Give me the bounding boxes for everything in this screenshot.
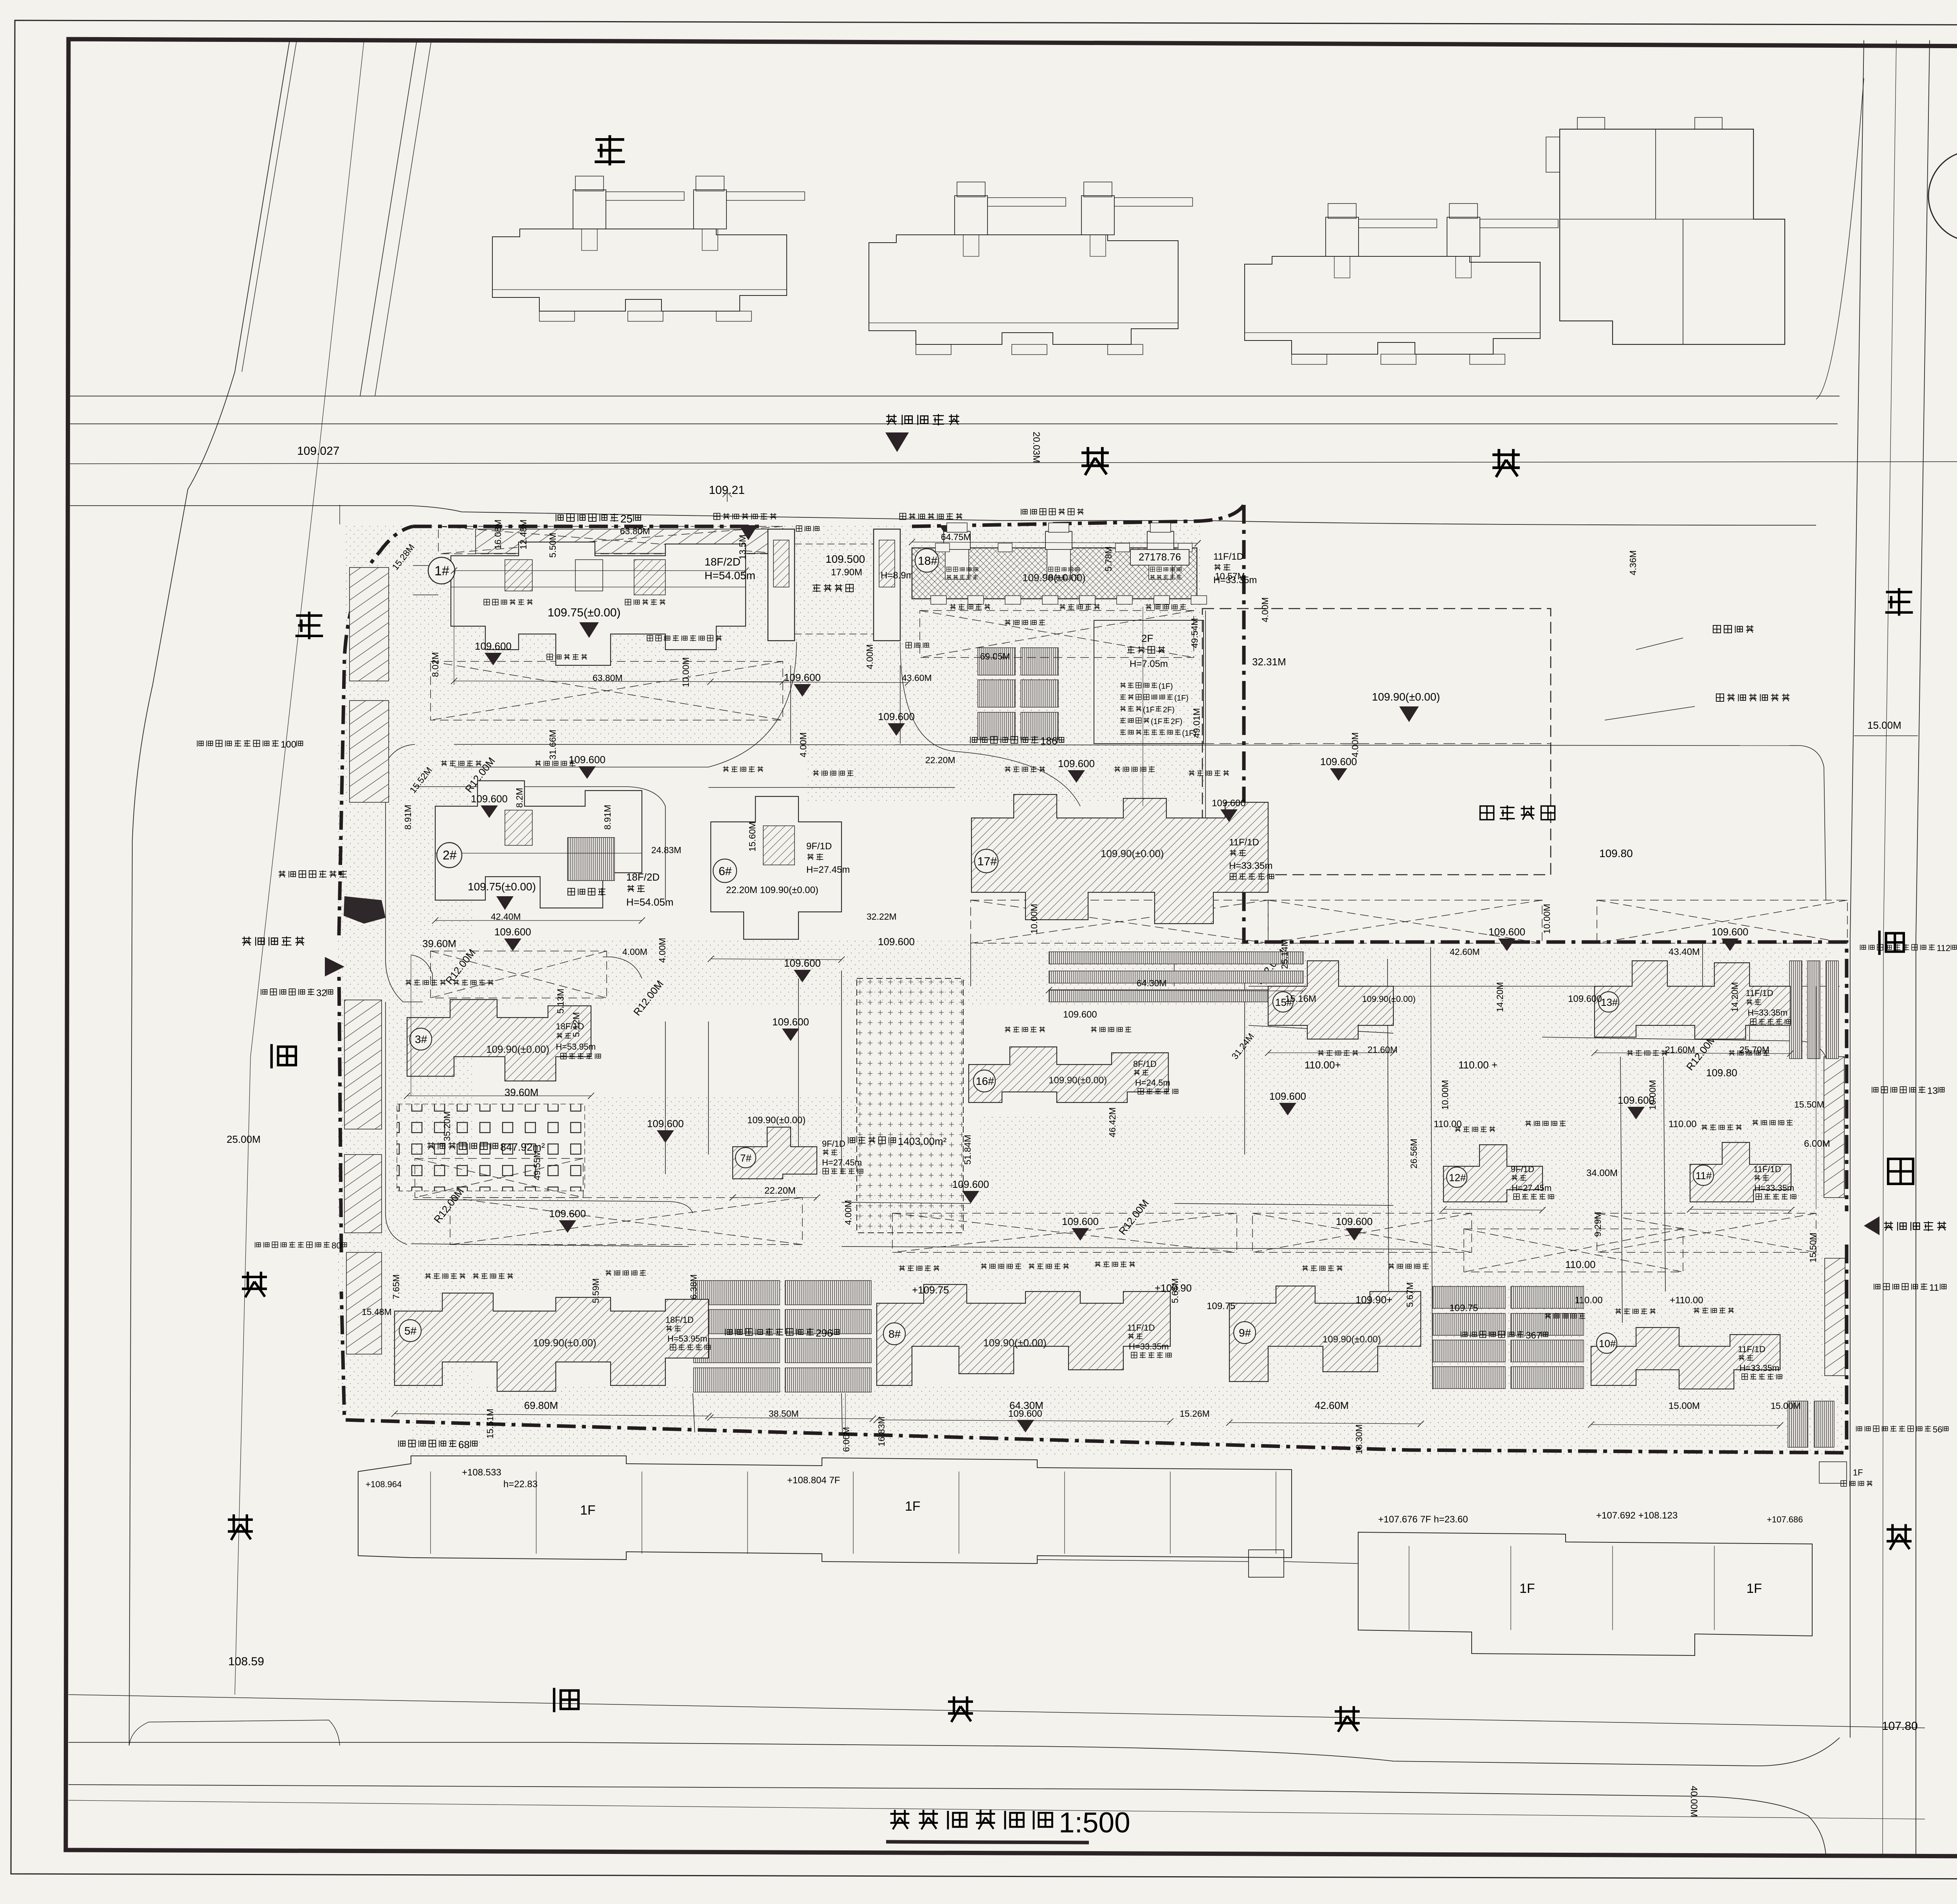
svg-text:15.00M: 15.00M [1771,1401,1801,1411]
building 15# (11F/1D) [1268,961,1393,1039]
building 1# (18F/2D) [451,542,746,665]
svg-text:109.600: 109.600 [772,1016,809,1028]
svg-text:100: 100 [281,739,296,750]
svg-text:15.50M: 15.50M [1794,1099,1824,1110]
svg-text:64.30M: 64.30M [1137,978,1167,988]
big NE building [1560,129,1785,344]
building 7# (9F/1D) [733,1127,817,1179]
svg-text:13#: 13# [1601,996,1618,1008]
internal roads [386,744,423,1002]
svg-text:7.65M: 7.65M [391,1274,401,1299]
svg-text:109.90(±0.00): 109.90(±0.00) [1101,848,1164,859]
svg-text:296: 296 [816,1327,833,1339]
svg-text:13.5M: 13.5M [737,535,748,560]
svg-text:4.00M: 4.00M [622,947,647,957]
svg-text:+110.00: +110.00 [1670,1295,1703,1306]
svg-text:112: 112 [1937,943,1950,953]
svg-text:8F/1D: 8F/1D [1133,1059,1157,1069]
svg-text:109.600: 109.600 [549,1208,586,1219]
svg-text:109.600: 109.600 [647,1118,684,1129]
svg-text:H=33.35m: H=33.35m [1739,1363,1779,1373]
svg-text:11F/1D: 11F/1D [1746,988,1773,998]
svg-text:1F: 1F [905,1499,921,1514]
svg-text:26.56M: 26.56M [1409,1138,1419,1169]
svg-text:8#: 8# [888,1328,901,1340]
building 12# (9F/1D) [1443,1145,1543,1202]
building 3# (18F/1D not-in-application) [407,1000,591,1081]
park green label [1480,806,1494,820]
road yinghe-road top [68,396,1840,396]
svg-text:109.600: 109.600 [1063,1009,1097,1020]
svg-text:15.51M: 15.51M [485,1409,495,1439]
svg-text:109.600: 109.600 [471,793,508,805]
svg-text:6.00M: 6.00M [841,1427,851,1452]
dimension labels [493,519,503,549]
svg-text:6.38M: 6.38M [688,1274,699,1299]
building 16# (8F/1D) [969,1047,1168,1102]
svg-text:10.00M: 10.00M [1029,904,1039,934]
svg-text:110.00 +: 110.00 + [1458,1059,1497,1071]
ground stipple [344,524,1202,744]
svg-text:9F/1D: 9F/1D [1511,1164,1534,1174]
svg-text:42.60M: 42.60M [1450,947,1480,957]
svg-text:(1F): (1F) [1159,682,1173,691]
building 2# (18F/2D) [435,781,642,908]
svg-text:15.26M: 15.26M [1180,1409,1210,1419]
svg-text:+108.804 7F: +108.804 7F [787,1475,840,1486]
svg-text:109.21: 109.21 [709,484,745,497]
svg-text:109.600: 109.600 [1712,926,1748,938]
svg-text:12#: 12# [1449,1172,1466,1183]
svg-text:32: 32 [316,988,327,998]
svg-text:186: 186 [1040,735,1057,747]
svg-text:10.00M: 10.00M [1440,1080,1450,1110]
svg-text:2F: 2F [1141,632,1153,644]
road right gucheng-east-road [1850,40,1864,1738]
svg-text:5#: 5# [404,1325,417,1337]
svg-text:11F/1D: 11F/1D [1127,1323,1155,1333]
site boundary [339,505,1847,1453]
svg-text:43.40M: 43.40M [1669,947,1700,957]
sports field [397,1104,585,1191]
svg-text:+108.964: +108.964 [366,1479,402,1489]
svg-text:16.83M: 16.83M [876,1416,887,1446]
svg-text:49.54M: 49.54M [1189,618,1200,648]
svg-text:25.00M: 25.00M [227,1133,261,1145]
svg-text:(1F): (1F) [1174,694,1189,703]
svg-text:11F/1D: 11F/1D [1738,1344,1766,1354]
svg-text:5.13M: 5.13M [555,989,566,1014]
svg-text:H=7.05m: H=7.05m [1130,659,1168,669]
svg-text:49.01M: 49.01M [1191,708,1202,738]
svg-text:H=53.95m: H=53.95m [667,1334,707,1344]
svg-text:80: 80 [332,1241,341,1250]
svg-text:109.75: 109.75 [1207,1301,1235,1311]
svg-text:10#: 10# [1599,1338,1616,1349]
svg-text:68: 68 [458,1439,470,1450]
svg-text:1403.00m²: 1403.00m² [898,1135,947,1147]
svg-text:109.600: 109.600 [1488,926,1525,938]
svg-text:24.83M: 24.83M [651,845,681,855]
svg-text:10.00M: 10.00M [1647,1080,1658,1110]
svg-text:8.2M: 8.2M [514,788,524,808]
svg-text:4.00M: 4.00M [1350,732,1360,757]
svg-text:109.600: 109.600 [784,957,821,969]
svg-text:109.600: 109.600 [569,754,605,766]
svg-text:2#: 2# [443,848,457,862]
north arrow [1928,151,1957,241]
svg-text:H=8.9m: H=8.9m [881,570,914,581]
svg-text:109.600: 109.600 [475,640,512,652]
svg-text:109.80: 109.80 [1706,1067,1737,1079]
svg-text:+109.75: +109.75 [912,1284,949,1296]
svg-text:109.600: 109.600 [878,936,915,947]
svg-text:42.60M: 42.60M [1315,1400,1349,1411]
svg-text:4.00M: 4.00M [657,938,667,963]
svg-text:h=22.83: h=22.83 [503,1479,537,1490]
svg-text:40.00M: 40.00M [1688,1786,1699,1817]
svg-text:6#: 6# [719,865,732,878]
svg-text:110.00: 110.00 [1565,1259,1596,1270]
svg-text:109.90(±0.00): 109.90(±0.00) [486,1043,550,1055]
svg-text:9#: 9# [1239,1327,1251,1339]
svg-text:8.91M: 8.91M [403,805,413,830]
svg-text:1F: 1F [580,1503,596,1518]
svg-text:35.20M: 35.20M [442,1111,452,1141]
svg-text:109.90(±0.00): 109.90(±0.00) [1372,691,1440,703]
svg-text:109.90(±0.00): 109.90(±0.00) [1323,1334,1381,1345]
svg-text:22.20M: 22.20M [925,755,955,765]
svg-text:1#: 1# [434,564,449,578]
svg-text:+107.676 7F h=23.60: +107.676 7F h=23.60 [1378,1514,1468,1525]
building 5# (18F/1D) [395,1293,708,1391]
svg-text:18F/1D: 18F/1D [665,1315,694,1325]
svg-text:63.80M: 63.80M [620,526,650,536]
road bottom huaihe-road [68,1695,1925,1728]
svg-text:49.55M: 49.55M [532,1150,542,1180]
svg-text:H=33.35m: H=33.35m [1754,1183,1794,1193]
svg-text:9.29M: 9.29M [1593,1212,1603,1237]
svg-text:367: 367 [1526,1330,1541,1341]
svg-text:4.00M: 4.00M [843,1200,853,1225]
svg-text:15.00M: 15.00M [1867,719,1901,731]
svg-text:109.90(±0.00): 109.90(±0.00) [533,1337,596,1349]
svg-text:109.80: 109.80 [1599,847,1633,859]
svg-text:109.600: 109.600 [952,1178,989,1190]
svg-text:H=54.05m: H=54.05m [626,896,674,908]
svg-text:109.90+: 109.90+ [1355,1294,1393,1306]
svg-text:109.75: 109.75 [1449,1303,1478,1313]
fire access X boxes [431,661,783,720]
svg-text:10.57M: 10.57M [1215,571,1245,581]
svg-text:109.600: 109.600 [1062,1216,1099,1227]
svg-text:H=33.35m: H=33.35m [1229,861,1272,871]
svg-text:31.66M: 31.66M [548,730,558,760]
svg-text:11F/1D: 11F/1D [1753,1164,1781,1174]
svg-text:46.42M: 46.42M [1107,1107,1117,1137]
svg-text:34.00M: 34.00M [1586,1168,1618,1178]
central green [857,978,963,1233]
svg-text:5.67M: 5.67M [1405,1282,1415,1307]
svg-text:27178.76: 27178.76 [1139,551,1181,563]
svg-text:51.84M: 51.84M [962,1135,973,1165]
svg-text:109.90(±0.00): 109.90(±0.00) [1022,572,1086,584]
svg-text:16#: 16# [976,1075,994,1087]
svg-text:15.48M: 15.48M [362,1307,392,1317]
svg-text:15.60M: 15.60M [747,821,757,852]
svg-text:H=27.45m: H=27.45m [1512,1183,1552,1193]
svg-text:5.50M: 5.50M [548,533,558,558]
svg-text:109.600: 109.600 [1269,1090,1306,1102]
parking strips [476,529,785,553]
svg-text:11: 11 [1929,1283,1939,1293]
svg-text:16.08M: 16.08M [493,519,503,549]
svg-text:109.90(±0.00): 109.90(±0.00) [983,1337,1047,1349]
svg-text:1F: 1F [1519,1581,1535,1596]
entrance gate [768,529,795,641]
svg-text:(1F: (1F [1143,706,1155,714]
svg-text:110.00: 110.00 [1669,1119,1697,1129]
svg-text:109.500: 109.500 [825,553,865,565]
svg-text:108.59: 108.59 [228,1655,264,1668]
svg-text:(1F: (1F [1151,717,1162,726]
svg-text:10.00M: 10.00M [681,657,691,687]
svg-text:1:500: 1:500 [1059,1807,1130,1839]
svg-text:18.30M: 18.30M [1354,1424,1364,1454]
svg-text:11#: 11# [1696,1170,1712,1182]
svg-text:10.00M: 10.00M [1542,904,1552,934]
svg-text:12.48M: 12.48M [518,519,528,549]
svg-text:H=33.35m: H=33.35m [1748,1008,1788,1018]
svg-text:1F: 1F [1746,1581,1762,1596]
svg-text:18F/2D: 18F/2D [626,871,660,883]
svg-text:109.600: 109.600 [1568,994,1602,1004]
svg-text:109.90(±0.00): 109.90(±0.00) [1362,994,1416,1004]
building 9# (11F/1D) [1229,1286,1421,1382]
south commercial strip east [1358,1532,1812,1655]
svg-text:109.600: 109.600 [1058,758,1095,769]
svg-text:8.02M: 8.02M [430,652,440,677]
svg-text:14.20M: 14.20M [1730,982,1740,1012]
svg-text:1F: 1F [1853,1468,1863,1477]
svg-text:109.600: 109.600 [1212,798,1246,809]
svg-text:H=33.35m: H=33.35m [1129,1342,1169,1351]
building 18# (11F/1D long slab) [912,548,1197,599]
svg-text:109.75(±0.00): 109.75(±0.00) [548,606,621,619]
svg-text:25.14M: 25.14M [1279,939,1290,969]
svg-text:+108.533: +108.533 [462,1467,501,1478]
svg-text:110.00: 110.00 [1575,1295,1603,1306]
svg-text:4.00M: 4.00M [865,644,875,669]
road labels [595,135,625,165]
svg-text:25: 25 [620,513,633,525]
building 8# (11F/1D) [877,1284,1170,1385]
svg-text:+107.686: +107.686 [1767,1515,1803,1524]
svg-text:110.00+: 110.00+ [1305,1059,1341,1071]
svg-text:9F/1D: 9F/1D [806,841,832,852]
building 17# (11F/1D not-in-application) [971,794,1268,924]
svg-text:9F/1D: 9F/1D [822,1139,845,1149]
svg-text:109.600: 109.600 [878,711,915,722]
svg-text:7#: 7# [740,1152,751,1164]
svg-text:109.600: 109.600 [784,672,821,683]
north existing buildings [492,229,787,311]
svg-text:H=27.45m: H=27.45m [806,865,850,875]
svg-text:32.22M: 32.22M [867,911,897,922]
road left gucheng-avenue [129,40,290,1745]
svg-text:109.90(±0.00): 109.90(±0.00) [747,1115,806,1126]
south commercial strip west [358,1456,1292,1564]
svg-text:22.20M 109.90(±0.00): 22.20M 109.90(±0.00) [726,885,818,895]
svg-text:15.00M: 15.00M [1669,1401,1700,1411]
svg-text:H=54.05m: H=54.05m [705,569,755,582]
svg-text:109.600: 109.600 [1008,1409,1042,1419]
svg-text:H=53.95m: H=53.95m [556,1042,596,1052]
svg-text:5.59M: 5.59M [591,1278,601,1303]
svg-text:4.00M: 4.00M [798,732,808,757]
svg-text:39.60M: 39.60M [505,1086,539,1098]
svg-text:2F): 2F) [1163,706,1175,714]
svg-text:18#: 18# [918,555,937,567]
svg-text:38.50M: 38.50M [769,1409,799,1419]
svg-text:5.78M: 5.78M [1103,546,1114,571]
building 11# (11F/1D) [1690,1142,1791,1202]
svg-text:39.60M: 39.60M [422,938,456,949]
building 6# (9F/1D) [711,796,842,939]
building 10# (11F/1D) [1591,1328,1780,1389]
svg-text:5.12M: 5.12M [571,1012,581,1037]
svg-text:+107.692 +108.123: +107.692 +108.123 [1596,1510,1678,1521]
svg-text:14.20M: 14.20M [1495,982,1505,1012]
dimension chains [454,681,783,682]
svg-text:3#: 3# [415,1033,427,1045]
svg-text:11F/1D: 11F/1D [1229,837,1259,848]
svg-text:56: 56 [1933,1425,1942,1434]
svg-text:4.36M: 4.36M [1628,550,1638,575]
svg-text:17#: 17# [977,855,997,868]
svg-text:11F/1D: 11F/1D [1213,551,1243,562]
svg-text:20.03M: 20.03M [1031,432,1042,463]
svg-text:5.65M: 5.65M [1170,1278,1180,1303]
svg-text:2F): 2F) [1171,717,1182,726]
svg-text:107.80: 107.80 [1882,1720,1918,1733]
svg-text:109.027: 109.027 [297,445,339,458]
svg-text:8.91M: 8.91M [602,805,613,830]
svg-text:110.00: 110.00 [1434,1119,1462,1129]
svg-text:4.00M: 4.00M [1260,597,1270,622]
svg-text:109.75(±0.00): 109.75(±0.00) [468,881,536,893]
underground garage outline [1202,609,1551,875]
svg-text:22.20M: 22.20M [764,1185,796,1196]
svg-text:6.00M: 6.00M [1804,1138,1830,1149]
svg-text:109.600: 109.600 [1336,1216,1373,1227]
svg-text:H=27.45m: H=27.45m [822,1158,862,1167]
svg-text:17.90M: 17.90M [831,567,862,578]
svg-text:15.16M: 15.16M [1285,994,1316,1004]
svg-text:32.31M: 32.31M [1252,656,1286,668]
svg-text:18F/2D: 18F/2D [705,556,741,568]
svg-text:109.90(±0.00): 109.90(±0.00) [1049,1075,1107,1086]
building 13# (11F/1D) [1595,961,1790,1039]
caption [890,1810,910,1829]
svg-text:69.80M: 69.80M [524,1400,558,1411]
svg-text:69.05M: 69.05M [980,651,1010,661]
svg-text:64.75M: 64.75M [941,532,971,542]
svg-text:109.600: 109.600 [494,926,531,938]
svg-text:43.60M: 43.60M [902,673,932,683]
svg-text:15.50M: 15.50M [1808,1232,1818,1263]
svg-text:H=24.5m: H=24.5m [1135,1078,1170,1088]
svg-text:42.40M: 42.40M [491,911,521,922]
bicycle parking grids [978,648,1015,675]
svg-text:13: 13 [1927,1086,1938,1096]
